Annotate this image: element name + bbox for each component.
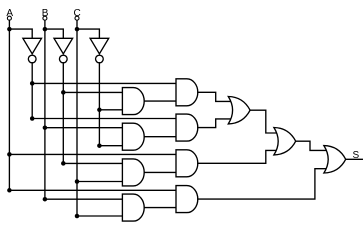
wire C to inverter U3 input [77,29,99,38]
wire A to AND U9 top input [9,153,176,155]
input terminal C [75,16,79,20]
wire U9 output to OR U13 bottom input [198,150,277,163]
wire A' vertical [31,63,33,119]
wire B' to AND U4 top input [63,91,122,93]
junction A' r4 [30,116,35,121]
wire C' to AND U4 bottom input [99,109,122,111]
junction B' r8 [61,161,66,166]
junction C' r3 [97,108,102,113]
wire U11 output to OR U14 bottom input [198,169,327,199]
input terminal B [43,16,47,20]
wire B vertical [44,20,46,199]
wire C' vertical [98,63,100,146]
wire A to AND U11 top input [9,189,176,191]
AND gate U5 [176,79,198,106]
inverter U3 (C') [90,38,109,63]
wire B to AND U10 top input [45,198,123,200]
AND gate U7 [176,114,198,141]
wire C to AND U10 bottom input [77,215,122,217]
wire U12 output to OR U13 top input [250,110,277,133]
wire A' to AND U7 top input [32,118,176,120]
junction C r9 [75,179,80,184]
junction B' r2 [61,90,66,95]
OR gate U13 [274,128,296,155]
junction A r10 [7,188,12,193]
wire U6 output [144,136,176,138]
AND gate U9 [176,150,198,177]
wire U8 output [144,171,176,173]
junction A' r1 [30,81,35,86]
AND gate U6 [122,123,144,150]
input terminal A [7,16,11,20]
AND gate U10 [122,194,144,221]
wire U4 output [144,100,176,102]
wire U5 output to OR U12 top input [198,92,231,101]
junction B r11 [43,197,48,202]
wire C' to AND U6 bottom input [99,145,122,147]
junction C r12 [75,214,80,219]
AND gate U11 [176,186,198,213]
wire B' vertical [62,63,64,164]
wire A to inverter U1 input [9,29,32,38]
wire U7 output to OR U12 bottom input [198,119,231,128]
wire B to AND U6 top input [45,127,123,129]
inverter U2 (B') [54,38,73,63]
wire U13 output to OR U14 top input [296,141,327,150]
junction A row top [7,27,12,32]
OR gate U14 [324,146,346,173]
wire C vertical [76,20,78,216]
junction C' r6 [97,143,102,148]
AND gate U8 [122,159,144,186]
wire A' to AND U5 top input [32,82,176,84]
wire U10 output [144,207,176,209]
wire A vertical [8,20,10,190]
junction A r7 [7,152,12,157]
wire U14 output S [346,158,363,160]
inverter U1 (A') [23,38,42,63]
wire B' to AND U8 top input [63,162,122,164]
AND gate U4 [122,88,144,115]
junction C row top [75,27,80,32]
OR gate U12 [228,97,250,124]
svg-text:S: S [352,150,359,161]
wire C to AND U8 bottom input [77,181,122,183]
junction B r5 [43,125,48,130]
wire B to inverter U2 input [45,29,63,38]
junction B row top [43,27,48,32]
